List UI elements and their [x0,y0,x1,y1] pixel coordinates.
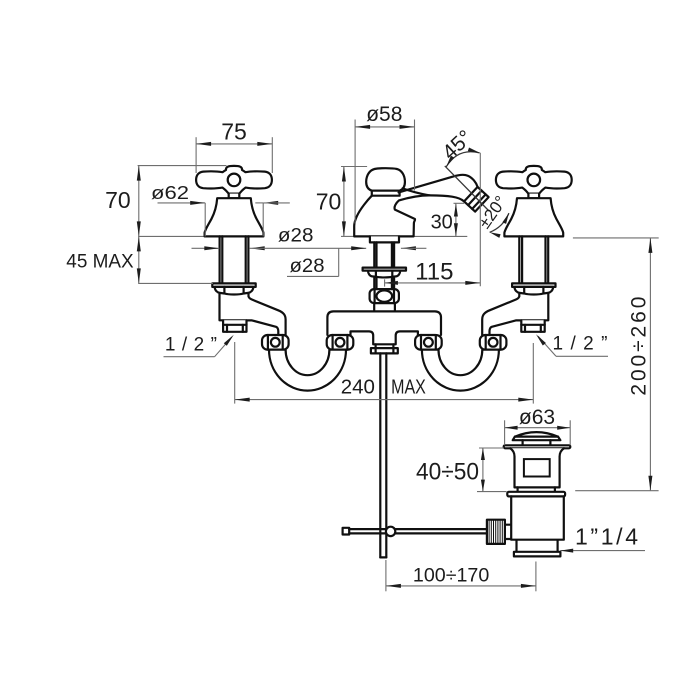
dimension Ø28 spout shank [338,248,340,276]
svg-text:70: 70 [105,187,131,213]
left flange and nut [212,283,255,287]
left handle bell [229,194,240,199]
left U-pipe [269,350,346,391]
svg-text:75: 75 [221,119,247,145]
aerator [464,187,489,212]
left center-side union [327,335,354,350]
dimension 40-50 [479,447,504,449]
spout knob [366,168,405,191]
dimension 75 [195,137,197,173]
label 1 inch 1/4 [560,550,645,552]
label 1/2 inch left [164,356,215,358]
dimension 45 MAX [138,282,213,284]
spout axis line [445,166,489,211]
dimension 30 [454,202,465,204]
spout root crease [403,188,430,195]
spout union [370,289,399,303]
drain pop-up cap [513,432,561,440]
pop-up rod [379,353,381,557]
spout base step [370,236,399,242]
drain lower body [505,496,564,551]
deck reference line left [138,235,205,237]
svg-text:ø58: ø58 [366,103,402,126]
dimension 70 left [138,165,227,167]
svg-text:ø28: ø28 [278,226,314,247]
drain upper body [510,448,564,487]
deck reference line far right [573,237,659,239]
drain body tabs [516,487,518,491]
dimension Ø28 side shank [192,247,220,249]
spout tailpiece [373,303,375,311]
dimension 115 [384,279,386,286]
svg-text:MAX: MAX [391,376,426,399]
left shank [219,236,221,283]
deck reference line center tick [341,235,354,237]
dimension Ø63 [504,420,506,445]
right shank [518,236,520,283]
right handle cross [496,166,572,194]
svg-text:1/2”: 1/2” [165,335,217,356]
dimension plus-minus 20deg [490,213,509,232]
left tap-side union [262,335,289,350]
svg-text:200÷260: 200÷260 [627,297,650,396]
drain tailpipe [514,552,561,557]
spout shank lower [373,277,375,289]
svg-text:240: 240 [341,376,375,399]
svg-text:1/2”: 1/2” [553,334,608,355]
svg-text:1”1/4: 1”1/4 [575,524,638,550]
svg-text:115: 115 [415,259,453,286]
right U-pipe [422,350,499,391]
svg-text:45°: 45° [438,126,477,164]
svg-text:ø62: ø62 [151,183,189,203]
deck reference line right of spout [414,235,468,237]
spout nut [368,271,400,278]
dimension 100-170 [385,560,387,591]
dimension Ø58 [354,120,356,224]
dimension Ø62 [158,202,206,204]
dimension 45deg [446,152,479,167]
dimension 70 center [341,166,367,168]
spout flange [363,268,406,271]
spout shank upper [373,242,375,267]
dimension 200-260 [649,238,651,491]
lever pivot [386,527,395,536]
svg-text:100÷170: 100÷170 [413,565,489,586]
right handle bell [528,194,539,199]
drain lip plate [507,492,565,497]
left below-deck body with elbow [220,294,286,335]
manifold collar [375,344,377,348]
label 1/2 inch right [556,355,608,357]
drain window [524,459,550,476]
svg-text:30: 30 [431,211,453,233]
svg-text:ø28: ø28 [290,256,325,277]
right tap-side union [480,335,507,350]
spout body and tube [354,175,477,237]
svg-text:ø63: ø63 [519,406,555,429]
right below-deck body with elbow [482,294,548,335]
drain knurled boss [487,520,505,544]
svg-text:45 MAX: 45 MAX [66,251,134,272]
lever rod [343,528,350,535]
left handle cross [196,166,272,194]
right flange and nut [512,283,555,287]
svg-text:40÷50: 40÷50 [416,459,479,486]
drain flange [504,445,571,448]
right center-side union [415,335,442,350]
dimension 240 MAX [234,342,236,404]
manifold bar [327,311,441,344]
svg-text:70: 70 [316,188,342,214]
